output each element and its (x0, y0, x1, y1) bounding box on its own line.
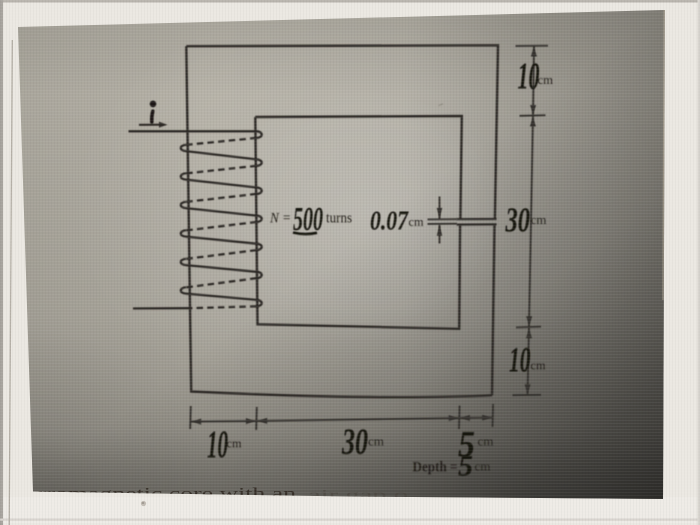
coil turn 4 left cap (181, 230, 186, 236)
dust speck (141, 501, 146, 506)
coil turn 4 front (solid) (186, 237, 257, 244)
coil turn 2 front (solid) (186, 180, 257, 188)
coil turn 7 right cap (257, 300, 262, 306)
coil turn 2 left cap (181, 173, 186, 179)
dim right arrowheads (531, 48, 537, 57)
photo right edge highlight sliver (663, 10, 664, 300)
core inner edge (window rectangle, open at right leg gap) (255, 116, 461, 219)
dim right: top bar (516, 45, 549, 47)
label 500 underline flourish (293, 233, 317, 235)
coil turn 5 front (solid) (186, 265, 257, 272)
coil turn 1 front (solid) (186, 151, 257, 159)
dim bottom: tick at inner right (458, 406, 461, 430)
current arrow (139, 124, 162, 126)
bottom edge strip (0, 519, 700, 521)
bottom margin band (0, 497, 700, 523)
coil turn 4 right cap (257, 216, 262, 222)
coil turn 6 left cap (181, 287, 186, 293)
coil turn 5 left cap (181, 259, 186, 265)
coil turn 3 front (solid) (186, 208, 257, 216)
dim right: tick at inner bottom (516, 326, 541, 329)
dim gap: lower extension line (428, 223, 458, 225)
dim bottom arrowheads (192, 419, 201, 425)
faint pencil mark (439, 104, 444, 106)
dim bottom: 10cm segment (191, 420, 257, 423)
dim bottom: 30cm segment (257, 418, 460, 421)
dim gap: upper extension line (428, 218, 458, 220)
dim right: bottom bar (513, 394, 542, 396)
current label i (152, 111, 153, 122)
air gap bottom cap (457, 223, 497, 225)
dim gap: upper pointer line (439, 197, 441, 219)
dim right: tick at inner top (520, 114, 546, 117)
top edge dark strip (0, 0, 700, 3)
coil turn 6 right cap (257, 272, 262, 278)
coil turn 2 back (dashed) (186, 166, 257, 174)
coil turn 2 right cap (257, 159, 262, 165)
dim bottom: tick at outer left (189, 406, 192, 429)
core outer edge (rectangle, open at right leg gap) (186, 45, 498, 218)
coil turn 1 left cap (181, 145, 186, 151)
left edge strip (0, 0, 3, 525)
air gap top cap (457, 218, 497, 220)
coil turn 6 front (solid) (186, 294, 257, 300)
coil turn 1 back (dashed) (186, 138, 257, 145)
coil turn 5 right cap (257, 244, 262, 250)
dim right: line 10cm segment (533, 46, 534, 116)
coil turn 1 right cap (257, 131, 262, 138)
right edge strip (698, 0, 700, 525)
dim gap: lower pointer line (439, 225, 441, 244)
coil turn 3 right cap (257, 188, 262, 194)
dim bottom: tick at inner left (255, 407, 258, 430)
wire: coil output lead (133, 307, 190, 310)
thin page crease line left (9, 40, 12, 525)
coil turn 3 left cap (181, 202, 186, 208)
coil turn 5 back (dashed) (186, 250, 257, 259)
dim bottom: tick at outer right (492, 404, 495, 427)
dim right: line 30cm segment (529, 116, 533, 328)
wire: coil input lead (129, 130, 257, 132)
coil turn 4 back (dashed) (186, 222, 257, 230)
dim bottom: 5cm segment (459, 417, 493, 419)
coil turn 6 back (dashed) (186, 278, 257, 287)
coil turn 3 back (dashed) (186, 194, 257, 202)
dim right: line 10cm bottom segment (528, 327, 530, 395)
coil last back segment (dashed) (190, 306, 257, 308)
